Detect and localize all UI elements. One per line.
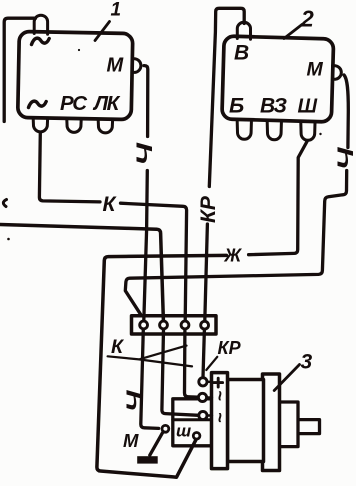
wire Ж: from device 2 terminal Ш down and left (right of label) [249, 142, 307, 255]
svg-text:К: К [103, 193, 118, 216]
wire below strip: terminal 4 to motor terminal + [203, 329, 204, 377]
callout line from КР to wire 4 [206, 357, 217, 370]
wire КР lower segment down to strip terminal 4 [205, 224, 208, 321]
motor body [228, 380, 264, 462]
wire below strip: terminal 1 to contact M [141, 329, 159, 428]
speck at left [7, 238, 10, 241]
bottom terminal Ш of device 2 [301, 123, 315, 141]
motor end plate [263, 374, 280, 471]
label КР (rotated) on wire [197, 195, 220, 223]
svg-text:КР: КР [197, 195, 220, 223]
svg-text:М: М [107, 55, 125, 77]
top terminal of device 2 [237, 22, 250, 39]
ground symbol [137, 456, 158, 463]
wire from left edge of figure to strip terminal 2 [0, 225, 163, 321]
top terminal of device 1 [34, 15, 47, 34]
motor terminal block [212, 373, 228, 469]
svg-text:Ч: Ч [122, 390, 146, 412]
strip terminal circle 4 [201, 321, 209, 329]
label ~ bottom inside device 1 [29, 101, 47, 107]
wire below strip: terminal 3 to motor terminal 2 [185, 329, 199, 397]
strip terminal circle 3 [181, 321, 189, 329]
speck near box 1 [78, 49, 80, 51]
svg-text:Ш: Ш [298, 95, 318, 117]
stray mark at left edge [3, 200, 6, 207]
label Ч (rotated) right side [333, 147, 356, 170]
svg-text:3: 3 [301, 351, 313, 374]
relay box U1 (device 1 body) [18, 31, 133, 119]
svg-text:Б: Б [229, 93, 244, 117]
callout line for designator 2 [284, 25, 302, 39]
wire Ч2 from device 2 terminal M, upper segment [344, 75, 348, 148]
ground lead from contact M [150, 432, 163, 456]
motor shaft [297, 420, 320, 434]
brush block inner line [173, 418, 212, 421]
wire Ч lower segment down to strip terminal 1 [144, 171, 148, 321]
svg-text:ш: ш [176, 422, 191, 441]
bottom terminal Б of device 2 [237, 122, 251, 140]
wire KР: from device 2 top terminal up, left and long way down [209, 8, 244, 186]
svg-text:Ч: Ч [132, 142, 157, 165]
bottom terminal 3 of device 1 [98, 120, 112, 133]
brush terminal ш circle [193, 433, 200, 440]
label Ч (rotated) on wire from device 1 [132, 142, 157, 165]
bottom terminal 2 of device 1 [67, 119, 81, 132]
contact M circle [162, 425, 169, 432]
wire K: from label to corner, down to strip terminal 3 [121, 203, 187, 321]
label + at motor terminal [214, 378, 223, 387]
wire Ж: left run, down left side, bottom run, up to brush terminal ш [97, 255, 227, 477]
svg-text:РС: РС [60, 92, 88, 115]
label ~ bottom terminal (rotated) [210, 412, 230, 423]
wire Ч2: down, left, down and long run left to strip funnel [125, 171, 346, 315]
terminal stubs into block [207, 382, 212, 416]
svg-text:В: В [234, 42, 249, 65]
wire from left edge to device 1 top terminal [4, 18, 35, 121]
callout fork lines from К to wires [108, 346, 192, 367]
svg-text:М: М [307, 59, 324, 81]
svg-text:КР: КР [218, 338, 242, 358]
svg-text:1: 1 [111, 0, 122, 21]
wire Ч from device 1 terminal M, upper segment [144, 66, 148, 137]
svg-text:~: ~ [210, 391, 230, 402]
bottom terminal ВЗ of device 2 [267, 122, 281, 140]
terminal strip (4-way connector) [132, 316, 217, 334]
svg-text:ЛК: ЛК [92, 92, 121, 115]
svg-text:М: М [123, 430, 139, 451]
strip terminal circle 1 [140, 321, 148, 329]
wire K: device1 terminal1 down and right (upper part) [39, 133, 100, 202]
strip terminal circle 2 [160, 321, 168, 329]
speck near device 2 terminal [319, 133, 321, 135]
brush block ш of motor [173, 399, 213, 446]
label Ч (rotated) below strip [122, 390, 146, 412]
label ~ middle terminal (rotated) [210, 391, 230, 402]
motor terminal ~ middle circle [198, 393, 206, 401]
svg-text:Ч: Ч [333, 147, 356, 170]
svg-text:~: ~ [210, 412, 230, 423]
motor terminal ~ bottom circle [199, 411, 207, 419]
relay box U2 (device 2 body) [222, 36, 334, 122]
label ~ top inside device 1 [32, 38, 50, 44]
wire below strip: terminal 2 to motor terminal 3 [162, 329, 199, 415]
callout line for designator 1 [95, 22, 110, 41]
callout line for designator 3 [274, 365, 299, 391]
motor bushing [277, 402, 299, 447]
motor terminal + circle [199, 378, 207, 386]
side terminal M of device 1 [132, 59, 141, 73]
svg-text:К: К [111, 336, 125, 358]
svg-text:ВЗ: ВЗ [260, 94, 287, 117]
bottom terminal 1 of device 1 [33, 119, 47, 132]
side terminal M of device 2 [333, 66, 342, 79]
svg-text:2: 2 [300, 6, 314, 32]
